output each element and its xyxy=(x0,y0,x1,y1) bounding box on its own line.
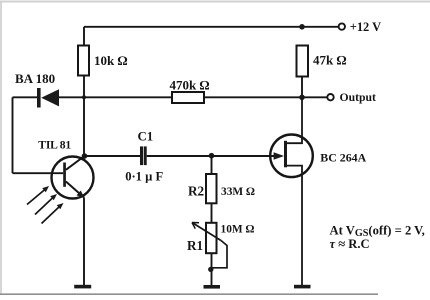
junction left rail / diode row xyxy=(82,95,86,99)
svg-text:0·1 µ F: 0·1 µ F xyxy=(125,169,163,183)
wire +12V terminal lead xyxy=(302,26,339,28)
wire R2 to R1 xyxy=(211,203,213,223)
svg-text:C1: C1 xyxy=(138,130,154,144)
light arrow 3 xyxy=(42,206,61,224)
transistor FET BC 264A circle xyxy=(270,135,313,178)
svg-text:10k Ω: 10k Ω xyxy=(94,53,127,68)
resistor R1 (preset) xyxy=(206,223,217,253)
wire C1 right lead to R2 junction xyxy=(147,155,212,157)
light arrow 1 xyxy=(27,189,46,205)
svg-text:BC 264A: BC 264A xyxy=(320,151,366,165)
svg-text:TIL 81: TIL 81 xyxy=(38,138,71,151)
ground R1 bar xyxy=(204,285,221,289)
wire output terminal lead xyxy=(302,96,327,98)
junction output xyxy=(299,95,305,101)
wire C1 left lead xyxy=(85,155,141,157)
capacitor C1 plate right xyxy=(144,146,147,165)
FET drain lead xyxy=(286,98,302,143)
svg-text:R1: R1 xyxy=(187,238,203,253)
wire left sense wire vertical xyxy=(12,97,14,173)
resistor R2 xyxy=(206,174,217,203)
transistor TIL 81 emitter stroke xyxy=(66,182,84,198)
diode BA 180 triangle xyxy=(41,89,59,106)
wire R2 top lead xyxy=(211,156,213,174)
wire gate lead to FET xyxy=(212,155,275,157)
junction top rail / 47k xyxy=(299,24,305,30)
FET channel bar xyxy=(284,141,287,168)
wire diode to 470k xyxy=(59,96,172,98)
svg-text:470k Ω: 470k Ω xyxy=(170,77,210,92)
resistor 47k xyxy=(297,46,309,77)
svg-text:BA 180: BA 180 xyxy=(15,71,55,86)
light arrow 2 xyxy=(35,197,54,215)
wire R1 wiper link xyxy=(212,241,227,268)
R1 arrowhead open xyxy=(192,223,199,229)
capacitor C1 plate left xyxy=(140,146,143,165)
ground FET source bar xyxy=(294,285,311,289)
svg-text:33M Ω: 33M Ω xyxy=(221,186,255,198)
FET source lead to ground xyxy=(286,166,302,285)
resistor 470k xyxy=(172,92,204,103)
junction R1 wiper / bottom xyxy=(208,267,213,272)
transistor TIL 81 base bar xyxy=(63,163,66,187)
svg-text:R2: R2 xyxy=(188,184,205,199)
junction C1 row / R2 xyxy=(209,153,215,159)
transistor TIL 81 collector stroke xyxy=(66,156,85,170)
wire top rail from 10k top to +12V junction xyxy=(84,26,302,28)
wire R1 bottom to ground xyxy=(211,253,213,285)
diode BA 180 cathode bar xyxy=(37,88,41,108)
resistor 10k xyxy=(78,46,89,76)
ground emitter bar xyxy=(74,285,91,289)
svg-text:10M Ω: 10M Ω xyxy=(221,224,255,236)
wire emitter to ground xyxy=(83,198,85,286)
svg-text:47k Ω: 47k Ω xyxy=(313,53,346,68)
wire 470k to output junction xyxy=(204,96,302,98)
svg-text:Output: Output xyxy=(340,91,376,104)
junction collector / C1 row xyxy=(82,153,88,159)
wire base lead horizontal xyxy=(13,172,64,174)
wire 10k bottom lead xyxy=(83,76,85,98)
node Output terminal circle xyxy=(327,94,333,100)
R1 wiper arrow diagonal xyxy=(192,223,221,241)
wire output row left (to diode) xyxy=(13,96,38,98)
wire 10k top lead xyxy=(83,27,85,46)
svg-text:τ ≈ R.C: τ ≈ R.C xyxy=(330,237,370,251)
wire 47k bottom lead to output junction xyxy=(301,77,303,98)
transistor TIL 81 emitter arrowhead xyxy=(77,191,85,198)
transistor TIL 81 circle xyxy=(52,157,94,199)
node +12V terminal circle xyxy=(339,23,345,29)
svg-text:+12 V: +12 V xyxy=(350,20,381,34)
wire left rail diode row to collector junction xyxy=(83,97,85,156)
FET gate arrowhead xyxy=(274,152,284,160)
